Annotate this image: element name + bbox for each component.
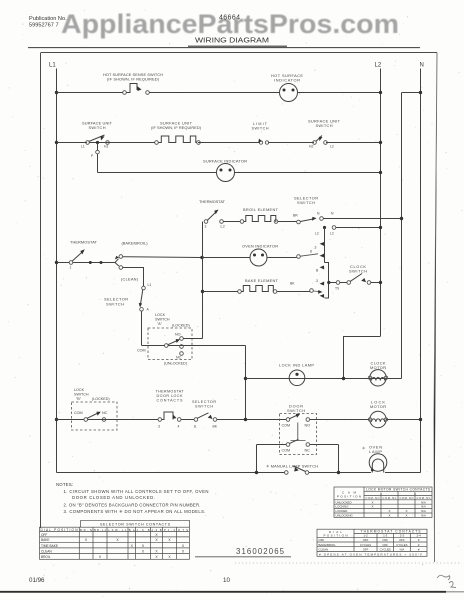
junction on N rail <box>419 91 422 94</box>
lamp branch verticals <box>257 445 339 473</box>
svg-text:SWITCH: SWITCH <box>106 302 124 307</box>
svg-text:POSITION: POSITION <box>324 534 348 538</box>
svg-text:CLEAN: CLEAN <box>41 549 52 553</box>
svg-text:P: P <box>91 154 94 158</box>
svg-text:UNLOCKING: UNLOCKING <box>336 514 354 518</box>
svg-text:(BAKE/BROIL): (BAKE/BROIL) <box>122 241 149 246</box>
svg-text:OFF: OFF <box>319 538 325 542</box>
svg-text:(CLEAN): (CLEAN) <box>121 277 139 282</box>
svg-text:LIMIT: LIMIT <box>253 122 268 126</box>
door switch upper contacts <box>286 418 290 422</box>
wire right vertical to lamp row <box>245 346 247 420</box>
wire clean stub <box>123 268 144 287</box>
svg-text:✳: ✳ <box>362 446 366 451</box>
svg-text:POSITION: POSITION <box>337 495 361 499</box>
svg-text:DOOR LOCK: DOOR LOCK <box>157 394 184 398</box>
svg-text:THERMOSTAT: THERMOSTAT <box>199 199 226 204</box>
frame right edge <box>434 53 437 563</box>
svg-text:LSW-L1: LSW-L1 <box>109 528 128 532</box>
door switch lower contacts <box>286 443 290 447</box>
svg-text:COM-NO: COM-NO <box>400 496 414 500</box>
svg-text:X: X <box>405 509 407 513</box>
svg-text:#: # <box>418 548 420 552</box>
surface unit switch right <box>313 141 317 145</box>
svg-text:#: # <box>418 538 420 542</box>
svg-text:L2: L2 <box>330 232 334 236</box>
door switch dashed box <box>280 414 317 455</box>
selector L2 row <box>323 226 326 229</box>
junction L2 row2 <box>379 141 382 144</box>
svg-text:BAKE ELEMENT: BAKE ELEMENT <box>245 278 279 283</box>
svg-text:BAKE: BAKE <box>41 538 50 542</box>
svg-text:SWITCH: SWITCH <box>252 127 269 131</box>
svg-text:INDICATOR: INDICATOR <box>274 78 300 83</box>
stack contact arrows <box>320 242 325 246</box>
wire bake/broil row to oven <box>123 256 297 259</box>
ROW1 top bus <box>55 72 382 102</box>
svg-text:MOTOR: MOTOR <box>370 404 386 409</box>
svg-text:3: 3 <box>158 425 160 429</box>
selector contacts door lock row <box>194 418 198 422</box>
wire lock motor row <box>57 419 370 421</box>
svg-text:COM: COM <box>74 411 83 415</box>
svg-text:N/A: N/A <box>421 500 426 504</box>
junction vertical cross <box>244 418 247 421</box>
svg-text:SELECTOR SWITCH CONTACTS: SELECTOR SWITCH CONTACTS <box>100 523 171 527</box>
door switch link <box>291 423 306 441</box>
thermostat switch <box>69 261 73 265</box>
svg-text:(UNLOCKED): (UNLOCKED) <box>164 362 187 366</box>
BOTTOMROW <box>57 445 421 475</box>
hot surface indicator lamp <box>280 84 298 102</box>
HEADER <box>28 9 420 48</box>
svg-text:X: X <box>131 544 134 548</box>
wire selector arm down <box>141 311 143 345</box>
notes block <box>56 482 208 514</box>
wire N branch vertical <box>401 93 403 379</box>
svg-text:X: X <box>168 538 171 542</box>
svg-text:UNLOCKED: UNLOCKED <box>336 500 352 504</box>
svg-text:X: X <box>142 544 145 548</box>
clock switch row <box>327 281 330 284</box>
svg-text:B: B <box>414 492 416 496</box>
RAILS <box>49 63 424 473</box>
svg-text:X: X <box>371 500 373 504</box>
junction from L2 jog <box>342 377 345 380</box>
svg-text:X: X <box>155 538 158 542</box>
svg-text:# OPENS AT OVEN TEMPERATURES >: # OPENS AT OVEN TEMPERATURES > 550°F <box>319 552 422 556</box>
junction L1 row lock <box>55 418 58 421</box>
svg-text:8.: 8. <box>194 425 197 429</box>
wire bottom bus <box>57 472 421 474</box>
bake element row <box>201 290 204 293</box>
svg-text:X: X <box>99 555 102 559</box>
svg-text:BROIL: BROIL <box>41 555 51 559</box>
svg-text:DIAL POSITION: DIAL POSITION <box>41 528 79 532</box>
svg-text:THERMOSTAT: THERMOSTAT <box>70 240 98 245</box>
svg-text:SWITCH: SWITCH <box>89 125 106 130</box>
manual lamp switch <box>285 471 289 475</box>
svg-text:CONTACTS: CONTACTS <box>157 399 184 403</box>
LOCKSEC <box>55 313 422 473</box>
svg-text:BK: BK <box>213 425 218 429</box>
svg-text:LOCKED: LOCKED <box>336 509 348 513</box>
wire N branch horizontal <box>402 92 421 94</box>
wire pilot drop <box>97 143 99 173</box>
svg-text:1. CIRCUIT SHOWN WITH ALL CON: 1. CIRCUIT SHOWN WITH ALL CONTROLS SET T… <box>64 489 209 494</box>
thermostat fork contacts <box>115 259 119 263</box>
svg-text:N: N <box>420 63 424 69</box>
svg-text:1-2: 1-2 <box>363 534 368 538</box>
svg-text:N: N <box>317 212 320 216</box>
svg-text:OFF: OFF <box>363 548 369 552</box>
surface unit switch <box>86 141 90 145</box>
frame left edge <box>40 53 42 529</box>
svg-text:OFF: OFF <box>382 538 388 542</box>
svg-text:2-3 B: 2-3 B <box>152 528 162 532</box>
svg-text:BR-N: BR-N <box>80 528 92 532</box>
wire row2 <box>57 142 381 144</box>
svg-text:#: # <box>418 543 420 547</box>
wire lock ind row <box>246 378 402 380</box>
junction lamp row <box>244 377 247 380</box>
selector arm A <box>140 290 143 306</box>
svg-text:BA: BA <box>129 528 135 532</box>
junction N lock row <box>419 418 422 421</box>
lock motor <box>370 411 386 427</box>
svg-text:LOCK: LOCK <box>74 388 85 392</box>
svg-text:X: X <box>85 538 88 542</box>
svg-text:✳ MANUAL LAMP SWITCH: ✳ MANUAL LAMP SWITCH <box>266 464 318 469</box>
svg-text:(IF SHOWN, IF REQUIRED): (IF SHOWN, IF REQUIRED) <box>107 77 160 82</box>
svg-text:NC: NC <box>176 356 182 360</box>
OVENSEC <box>55 196 403 379</box>
bake element <box>238 290 242 294</box>
svg-text:CLEAN: CLEAN <box>319 548 329 552</box>
junction right lamp branch <box>337 471 340 474</box>
wire L2 jog <box>344 337 381 379</box>
svg-text:AppliancePartsPros.com: AppliancePartsPros.com <box>61 9 399 39</box>
svg-text:WIRING DIAGRAM: WIRING DIAGRAM <box>195 36 269 45</box>
junction L1 thermostat <box>55 261 58 264</box>
selector N row <box>320 217 324 221</box>
svg-text:SWITCH: SWITCH <box>349 269 367 274</box>
svg-text:X: X <box>116 538 119 542</box>
clock motor <box>370 370 386 386</box>
svg-text:SELECTOR: SELECTOR <box>192 400 216 404</box>
svg-text:NOTES:: NOTES: <box>56 482 73 487</box>
svg-text:LAMP: LAMP <box>369 449 382 454</box>
ROW3 surface indicator row <box>98 159 383 182</box>
bottom scan edge line <box>0 591 446 593</box>
svg-text:L1: L1 <box>49 63 56 69</box>
svg-text:SURFACE INDICATOR: SURFACE INDICATOR <box>203 159 247 164</box>
svg-text:(LOCKED): (LOCKED) <box>92 397 110 401</box>
junction L1 row2 <box>55 141 58 144</box>
svg-text:H2: H2 <box>309 145 313 149</box>
svg-text:4: 4 <box>178 425 180 429</box>
svg-text:.3: .3 <box>314 246 317 250</box>
svg-text:X: X <box>182 549 185 553</box>
svg-text:BR: BR <box>293 214 298 218</box>
svg-text:01/96: 01/96 <box>29 577 45 584</box>
wire NO to center vertical <box>183 338 202 340</box>
svg-text:SWITCH: SWITCH <box>155 318 170 322</box>
svg-text:T9: T9 <box>335 287 339 291</box>
svg-text:BROIL ELEMENT: BROIL ELEMENT <box>243 207 279 212</box>
svg-text:OFF: OFF <box>363 538 369 542</box>
svg-text:3: 3 <box>205 225 207 229</box>
svg-text:L2: L2 <box>315 232 319 236</box>
wire N rail <box>420 69 422 473</box>
svg-text:X: X <box>388 514 390 518</box>
svg-text:N: N <box>331 212 334 216</box>
junction L2 top <box>379 91 382 94</box>
hot surface sense switch <box>123 91 127 95</box>
selector stack vertical <box>324 228 326 263</box>
surface indicator lamp <box>217 164 235 182</box>
svg-text:NC: NC <box>102 411 108 415</box>
svg-text:CYCLES: CYCLES <box>380 548 391 552</box>
frame top edge <box>41 52 437 54</box>
svg-text:"B": "B" <box>76 397 82 401</box>
clean selector terminal <box>142 286 146 290</box>
svg-text:2-3: 2-3 <box>400 534 405 538</box>
svg-text:X: X <box>155 533 158 537</box>
wire motor to N <box>386 419 421 421</box>
limit switch <box>259 141 262 144</box>
svg-text:THERMOSTAT: THERMOSTAT <box>156 390 185 394</box>
svg-text:X: X <box>182 544 185 548</box>
svg-text:OFF: OFF <box>382 543 388 547</box>
svg-text:OFF: OFF <box>41 533 47 537</box>
svg-text:NO: NO <box>305 424 311 428</box>
wire thermostat row <box>57 262 116 264</box>
svg-text:CYCLES: CYCLES <box>360 543 371 547</box>
svg-text:LOCK IND LAMP: LOCK IND LAMP <box>279 363 314 368</box>
svg-text:P1-3: P1-3 <box>164 528 176 532</box>
svg-text:OTS: OTS <box>178 528 188 532</box>
junction L1 top <box>55 91 58 94</box>
svg-text:BK: BK <box>290 282 295 286</box>
svg-text:SWITCH: SWITCH <box>297 200 315 205</box>
center vertical x202 <box>202 222 204 339</box>
wire L1 rail <box>56 69 58 473</box>
wire L2 rail <box>380 69 382 337</box>
wire broil to selector <box>300 219 313 222</box>
svg-text:SWITCH: SWITCH <box>316 123 333 128</box>
broil element <box>240 220 244 224</box>
svg-text:N/A: N/A <box>421 514 426 518</box>
svg-text:N/A: N/A <box>400 548 405 552</box>
svg-text:COM: COM <box>137 349 146 353</box>
svg-text:LOCKING: LOCKING <box>336 505 350 509</box>
svg-text:COM: COM <box>282 449 291 453</box>
svg-text:(LOCKED): (LOCKED) <box>172 324 190 328</box>
svg-text:X: X <box>168 555 171 559</box>
svg-text:2-4: 2-4 <box>417 534 422 538</box>
svg-text:LOCK: LOCK <box>155 313 166 317</box>
svg-text:2. ON "B" DENOTES BACKGUARD C: 2. ON "B" DENOTES BACKGUARD CONNECTOR PI… <box>64 503 201 508</box>
svg-text:L1: L1 <box>148 283 152 287</box>
svg-text:BR-L1: BR-L1 <box>94 528 107 532</box>
svg-text:H1: H1 <box>104 145 108 149</box>
lock switch A NC contact <box>180 352 184 356</box>
svg-text:3. COMPONENTS WITH ✳ DO NOT A: 3. COMPONENTS WITH ✳ DO NOT APPEAR ON AL… <box>64 509 206 514</box>
svg-text:8: 8 <box>310 250 312 254</box>
oven indicator lamp <box>250 249 267 266</box>
svg-text:NO: NO <box>175 333 181 337</box>
svg-text:SWITCH: SWITCH <box>195 405 213 409</box>
svg-text:(IF SHOWN, IF REQUIRED): (IF SHOWN, IF REQUIRED) <box>151 125 202 130</box>
line under part number <box>195 556 291 558</box>
selector switch contacts table grid <box>40 527 190 559</box>
svg-text:OVEN INDICATOR: OVEN INDICATOR <box>242 244 278 249</box>
junction L2 row3 <box>379 171 382 174</box>
svg-text:DOOR CLOSED AND UNLOCKED.: DOOR CLOSED AND UNLOCKED. <box>72 495 155 500</box>
wire top bus <box>57 92 381 94</box>
svg-text:46664: 46664 <box>219 15 240 22</box>
thermostat broil pole <box>204 220 208 224</box>
lock motor switch contacts table grid <box>334 487 432 517</box>
svg-text:X: X <box>142 549 145 553</box>
svg-text:316002065: 316002065 <box>236 547 285 556</box>
svg-text:COM-NC: COM-NC <box>417 496 431 500</box>
svg-text:CYCLES: CYCLES <box>396 543 407 547</box>
lock ind lamp <box>289 370 305 386</box>
svg-text:L1: L1 <box>81 145 85 149</box>
lock switch A dashed box <box>148 328 192 360</box>
svg-text:A: A <box>147 308 150 312</box>
svg-text:X: X <box>155 555 158 559</box>
svg-text:1,2: 1,2 <box>220 225 225 229</box>
svg-text:X: X <box>405 514 407 518</box>
title underline <box>28 47 420 49</box>
svg-text:COM-NC: COM-NC <box>383 496 397 500</box>
svg-text:COM-NO: COM-NO <box>366 496 380 500</box>
svg-text:N/A: N/A <box>421 505 426 509</box>
svg-text:SWITCH: SWITCH <box>74 393 89 397</box>
oven lamp <box>369 454 387 472</box>
dotted scan band <box>235 562 462 564</box>
wire broil row <box>223 221 296 223</box>
svg-text:1-5 B: 1-5 B <box>137 528 150 532</box>
svg-text:.3: .3 <box>315 279 318 283</box>
lock switch B dashed box <box>72 402 118 430</box>
thermostat door lock contacts <box>158 418 162 422</box>
svg-text:BAKE/BROIL: BAKE/BROIL <box>319 543 337 547</box>
svg-text:N/A: N/A <box>421 509 426 513</box>
svg-text:TIME BAKE: TIME BAKE <box>41 544 58 548</box>
svg-text:1: 1 <box>70 266 72 270</box>
lock switch A COM row <box>142 345 246 347</box>
svg-text:X: X <box>155 549 158 553</box>
svg-text:1-3: 1-3 <box>383 534 388 538</box>
svg-text:59952767 7: 59952767 7 <box>29 23 59 29</box>
FOOTER <box>0 563 464 592</box>
thermostat contacts table grid <box>317 529 427 556</box>
svg-text:OFF: OFF <box>399 538 405 542</box>
TABLES <box>40 487 433 559</box>
wire row3 <box>98 172 381 174</box>
svg-text:LOCK MOTOR SWITCH CONTACTS: LOCK MOTOR SWITCH CONTACTS <box>366 487 430 491</box>
junction at switch <box>96 141 99 144</box>
svg-text:B: B <box>316 269 319 273</box>
svg-text:COM: COM <box>282 424 291 428</box>
handwritten scribble <box>437 575 450 580</box>
ROW2 surface unit row <box>55 119 382 173</box>
selector stack box <box>325 263 329 299</box>
pilot terminal P <box>96 150 100 154</box>
svg-text:SWITCH: SWITCH <box>287 408 305 413</box>
svg-text:L2: L2 <box>330 145 334 149</box>
svg-text:"A": "A" <box>157 322 163 326</box>
svg-text:THERMOSTAT CONTACTS: THERMOSTAT CONTACTS <box>361 530 421 534</box>
surface unit element <box>155 141 159 145</box>
svg-text:X: X <box>371 505 373 509</box>
svg-text:10: 10 <box>223 577 230 584</box>
node at oven row end <box>297 255 301 259</box>
svg-text:L2: L2 <box>375 63 382 69</box>
svg-text:X: X <box>388 509 390 513</box>
junction left lamp branch <box>255 471 258 474</box>
svg-text:NC: NC <box>305 449 311 453</box>
